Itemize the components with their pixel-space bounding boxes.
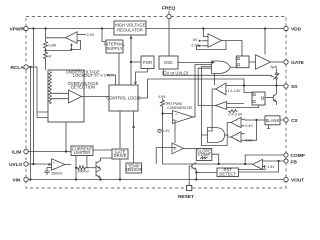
- wire FREQ to OSC: [168, 19, 170, 56]
- node on top rail near VPWR pin: [32, 27, 34, 29]
- svg-text:4.5V: 4.5V: [158, 95, 166, 99]
- svg-text:1.4V: 1.4V: [162, 129, 170, 133]
- svg-text:+: +: [221, 91, 223, 95]
- svg-text:0.6V: 0.6V: [245, 139, 253, 143]
- svg-text:GATE: GATE: [291, 60, 305, 66]
- node on top rail at divider: [44, 27, 46, 29]
- svg-text:VIN: VIN: [13, 177, 21, 183]
- node on top rail at driver supply drop: [264, 27, 266, 29]
- svg-text:1.4–3.6V: 1.4–3.6V: [228, 113, 243, 117]
- node CS sense: [255, 119, 257, 121]
- block output latch: [236, 56, 249, 68]
- driver U2: [256, 55, 271, 69]
- svg-text:+: +: [236, 139, 238, 143]
- wire latch to driver: [249, 61, 256, 63]
- block CURRENT LIMITER: [71, 146, 93, 156]
- pin VIN: [13, 177, 29, 183]
- svg-text:SUPPLY: SUPPLY: [106, 46, 122, 51]
- wire error amp output stub: [245, 163, 252, 165]
- wire VIN-to-VOUT bottom rail: [29, 179, 284, 181]
- node bottom rail gate drive: [119, 178, 121, 180]
- svg-text:+: +: [53, 161, 55, 165]
- wire COMP pin loop to error amp output: [245, 155, 283, 164]
- block BLANK: [265, 116, 280, 129]
- label 1.4V offset: [158, 129, 170, 133]
- transistor Q2 reset open-drain: [192, 163, 217, 180]
- transistor Q1 soft-start discharge: [265, 86, 277, 106]
- node RCLA branch: [29, 66, 31, 68]
- comparator 0.6V threshold: [228, 132, 253, 143]
- comparator UVLO/OV detect (inside box): [49, 72, 109, 105]
- block TEMP SENSOR: [125, 163, 143, 173]
- svg-text:250mV: 250mV: [78, 170, 90, 174]
- svg-text:COMP: COMP: [198, 152, 211, 157]
- wire summing amp input: [156, 148, 176, 165]
- svg-text:BLANK: BLANK: [266, 118, 280, 123]
- wire driver supply drop: [264, 29, 266, 55]
- wire gate drive down to bottom rail: [119, 159, 121, 180]
- wire PWM minus input column: [174, 120, 176, 143]
- wire error amp ref: [263, 166, 265, 168]
- pin CS: [284, 118, 299, 124]
- wire OV comparator tap down: [203, 29, 208, 37]
- wire mirror resistor left drop: [75, 168, 77, 180]
- wire mid comparator to switch control: [198, 68, 215, 105]
- wire RESET pin riser: [189, 166, 192, 185]
- svg-text:−: −: [53, 167, 55, 171]
- wire stubs into UVLO box: [37, 67, 48, 118]
- wire PWM minus stub: [173, 119, 176, 121]
- comparator CS mid (left-pointing): [215, 102, 258, 117]
- svg-text:−: −: [175, 119, 177, 123]
- block OSC: [159, 56, 189, 75]
- wire OV/UVLO signal into control logic: [108, 75, 115, 85]
- resistor 0.8R: [44, 29, 57, 50]
- svg-text:5kΩ: 5kΩ: [166, 101, 173, 105]
- node UVLO drop on ILIM line: [65, 150, 67, 152]
- svg-text:COMP: COMP: [291, 153, 306, 159]
- svg-text:1.5V: 1.5V: [267, 165, 275, 169]
- svg-text:−: −: [236, 119, 238, 123]
- wire PWM input column: [162, 107, 164, 165]
- pin VOUT: [284, 177, 304, 183]
- wire UVLO comparator output: [65, 164, 71, 166]
- pin RESET: [178, 185, 194, 199]
- resistor mirror sense: [76, 166, 89, 174]
- svg-text:OSC: OSC: [164, 60, 173, 65]
- wire current limiter bottom drops: [76, 155, 87, 168]
- svg-text:COMPARATOR: COMPARATOR: [167, 106, 193, 110]
- pin UVLO: [9, 162, 28, 168]
- block INTERNAL SUPPLY: [104, 40, 125, 53]
- svg-text:LOCKOUT: LOCKOUT: [73, 73, 94, 78]
- wire slope comp output to rail: [212, 154, 219, 164]
- wire control logic output loop: [138, 79, 252, 98]
- wire OSC outputs to OR gate: [178, 62, 212, 64]
- svg-text:R: R: [49, 55, 52, 59]
- node bottom rail mirror: [75, 178, 77, 180]
- wire OV comparator hysteresis loop: [197, 41, 227, 50]
- pin ILIM: [12, 149, 28, 155]
- wire current limiter to gate drive: [93, 149, 112, 151]
- wire error amp rail: [163, 163, 246, 165]
- block CONTROL LOGIC: [106, 85, 141, 111]
- wire CS pin to BLANK: [280, 119, 283, 121]
- wire PWM comparator output to gate: [193, 65, 212, 118]
- node POR tap: [130, 61, 132, 63]
- node on top rail at OV comparator tap: [202, 27, 204, 29]
- svg-text:CS: CS: [291, 118, 298, 124]
- capacitor UVLO filter: [45, 168, 63, 176]
- svg-text:8V: 8V: [193, 38, 198, 42]
- wire control logic to temp sensor: [133, 111, 135, 163]
- svg-text:DRIVE: DRIVE: [114, 153, 127, 158]
- wire AND cluster input: [202, 135, 228, 146]
- op-amp clamp U1: [46, 32, 95, 51]
- arrow into control logic top: [134, 82, 137, 85]
- wire CS node down branch: [245, 120, 257, 140]
- comparator 0.4V threshold: [227, 117, 253, 145]
- svg-text:VPWR: VPWR: [10, 26, 25, 32]
- comparator PWM U3: [167, 102, 193, 123]
- or-gate main G1: [212, 61, 231, 74]
- svg-text:POR: POR: [143, 60, 152, 65]
- node on top rail at internal supply drop: [101, 27, 103, 29]
- svg-text:−: −: [258, 160, 260, 164]
- svg-text:+: +: [175, 113, 177, 117]
- wire SS pin line: [226, 85, 284, 87]
- block soft-start latch: [252, 92, 265, 105]
- svg-text:REGULATOR: REGULATOR: [117, 27, 143, 32]
- wire OR gate output to latch: [230, 66, 236, 68]
- wire control logic to gate drive: [119, 111, 121, 149]
- svg-text:260mV: 260mV: [51, 172, 63, 176]
- svg-text:ILIM: ILIM: [12, 149, 21, 155]
- wire RCLA branch down to bottom rail: [29, 67, 31, 180]
- error amplifier U5: [239, 159, 276, 169]
- node SS latch branch: [243, 84, 245, 86]
- svg-text:+: +: [158, 129, 160, 133]
- block GATE DRIVE: [112, 149, 128, 159]
- summing amp U4: [172, 143, 184, 154]
- wire internal supply feed: [102, 29, 106, 42]
- arrow into HV regulator bottom: [130, 36, 133, 39]
- svg-text:VOUT: VOUT: [291, 177, 304, 183]
- wire UVLO pin to comparator: [29, 163, 52, 165]
- pin COMP: [284, 153, 306, 159]
- current source / soft-start switch I1: [271, 65, 280, 86]
- wire VPWR-to-VDD top rail: [29, 28, 284, 30]
- node FB sense: [278, 160, 280, 162]
- node UVLO line branches: [32, 163, 34, 165]
- wire VPWR rail down left column: [33, 29, 35, 165]
- resistor R: [44, 49, 52, 70]
- pin SS: [284, 84, 298, 90]
- pin VDD: [284, 26, 302, 32]
- label OV or UVLO: [94, 73, 114, 77]
- svg-text:−: −: [236, 134, 238, 138]
- node bottom rail left: [29, 178, 31, 180]
- svg-text:RESET: RESET: [178, 194, 194, 200]
- IC boundary dashed border: [26, 17, 286, 189]
- wire mirror base rail: [87, 167, 96, 169]
- svg-text:UVLO: UVLO: [9, 162, 22, 168]
- node error amp output: [244, 163, 246, 165]
- svg-text:FB: FB: [291, 159, 298, 165]
- pin VPWR: [10, 26, 29, 32]
- wire AND cluster riser to gate: [202, 67, 212, 136]
- pin RCLA: [11, 65, 29, 71]
- svg-text:DETECTION: DETECTION: [71, 84, 95, 89]
- svg-text:1.4–2.5V: 1.4–2.5V: [228, 89, 242, 93]
- wire internal supply bottom to control logic: [118, 53, 120, 85]
- transistor Q4 mirror lower: [96, 169, 102, 181]
- svg-text:0.9V: 0.9V: [87, 33, 95, 37]
- comparator CS upper 2.5V: [208, 74, 242, 132]
- wire to PWM plus input: [163, 113, 173, 115]
- svg-text:(OV or UVLO): (OV or UVLO): [162, 70, 189, 75]
- pin FB: [284, 159, 297, 166]
- wire control logic input arrow from POR: [136, 69, 148, 82]
- comparator OV 8V/6.7V: [192, 34, 222, 48]
- pin GATE: [284, 60, 305, 66]
- svg-text:SS: SS: [291, 84, 298, 90]
- block RST DETECT: [217, 168, 239, 177]
- wire CS node left to comparator: [245, 119, 257, 121]
- svg-text:+: +: [236, 124, 238, 128]
- svg-text:0.4V: 0.4V: [245, 124, 253, 128]
- svg-text:LIMITER: LIMITER: [74, 150, 91, 155]
- wire OV comparator output to latch: [222, 41, 243, 57]
- wire ILIM to current limiter: [29, 151, 71, 153]
- svg-text:−: −: [221, 86, 223, 90]
- and-gate CS cluster: [208, 128, 229, 143]
- wire OSC clock to soft-start switch: [164, 69, 272, 76]
- comparator UVLO pin U6: [49, 159, 65, 171]
- wire slope comp link: [184, 147, 197, 149]
- block HIGH VOLTAGE REGULATOR: [114, 21, 146, 35]
- svg-text:5µA: 5µA: [271, 65, 278, 69]
- svg-text:DETECT: DETECT: [219, 171, 236, 176]
- wire UVLO box bottom drop: [65, 122, 67, 152]
- node resistor left: [75, 167, 77, 169]
- node SS switch branch: [275, 84, 277, 86]
- resistor 5k vertical: [158, 95, 172, 107]
- node bottom rail reset: [195, 178, 197, 180]
- node PWM plus input: [161, 112, 163, 114]
- block SLOPE COMP: [196, 149, 212, 161]
- wire POR left connection: [131, 61, 141, 63]
- pin FREQ: [162, 6, 175, 19]
- svg-text:RCLA: RCLA: [11, 65, 25, 71]
- wire rst detect to FB sense: [239, 161, 279, 172]
- svg-text:SENSOR: SENSOR: [125, 167, 143, 172]
- svg-text:CONTROL LOGIC: CONTROL LOGIC: [106, 95, 141, 100]
- wire HV regulator bottom to control logic: [130, 36, 132, 86]
- wire BLANK to CS node: [257, 119, 266, 121]
- svg-text:VDD: VDD: [291, 26, 302, 32]
- transistor Q3 mirror upper: [96, 158, 113, 177]
- svg-text:0.8R: 0.8R: [49, 44, 57, 48]
- wire FB pin to error amp: [263, 160, 284, 162]
- wire driver to GATE pin: [271, 61, 284, 63]
- wire RCLA feed: [29, 66, 37, 68]
- svg-text:OV or UVLO: OV or UVLO: [94, 73, 114, 77]
- svg-text:6.7V: 6.7V: [192, 44, 200, 48]
- block UNDERVOLTAGE LOCKOUT / OVERVOLTAGE DETECTION: [48, 70, 100, 122]
- block POR: [141, 56, 154, 69]
